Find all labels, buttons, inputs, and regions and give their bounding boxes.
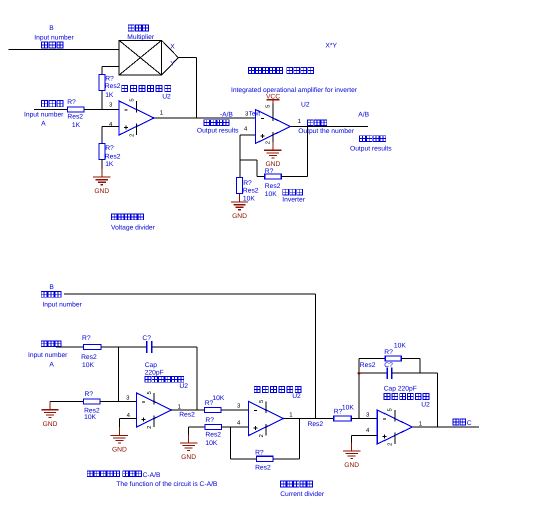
svg-text:U2: U2 <box>179 383 188 390</box>
wire cap row left <box>359 372 387 374</box>
svg-text:U2: U2 <box>162 93 171 100</box>
svg-text:R?: R? <box>205 417 214 424</box>
svg-text:2: 2 <box>387 443 394 446</box>
svg-text:220pF: 220pF <box>145 370 164 377</box>
wire op3 pin 4 to ground <box>119 419 136 428</box>
op-amp U2 (third) <box>137 393 172 427</box>
wire resistor to ground <box>101 159 103 168</box>
resistor R? Res2 1K (op1 pin4 to ground) <box>99 143 121 168</box>
ground GND (op5 pin 4) <box>343 443 360 469</box>
ground GND (op4 pin 4) <box>180 435 197 461</box>
resistor R? Res2 10K (op5 feedback) <box>360 342 407 369</box>
svg-text:The function of the circuit is: The function of the circuit is C-A/B <box>116 481 218 488</box>
svg-text:R?: R? <box>82 335 91 342</box>
svg-text:Integrated operational amplifi: Integrated operational amplifier for inv… <box>231 87 358 94</box>
svg-text:Res2: Res2 <box>67 114 83 121</box>
op-amp U2 (fifth) <box>377 410 412 444</box>
wire op2 pin 4 feedback net <box>240 135 265 177</box>
svg-text:2: 2 <box>146 426 153 429</box>
net label B (bottom) <box>41 284 82 309</box>
svg-text:R?: R? <box>265 168 274 175</box>
wire input A <box>34 109 67 111</box>
wire resistor to op4 pin 4 <box>222 426 249 428</box>
svg-text:A: A <box>41 120 46 127</box>
caption 电压除法器 Voltage divider <box>111 214 156 231</box>
wire feedback resistor row <box>359 358 385 360</box>
svg-text:Res2: Res2 <box>179 412 195 419</box>
svg-text:Res2: Res2 <box>265 183 281 190</box>
ground GND (below op1 resistor) <box>93 169 110 195</box>
net label 输出结果 Output results (right) <box>350 136 392 153</box>
svg-text:Inverter: Inverter <box>282 197 305 204</box>
svg-text:Res2: Res2 <box>308 421 324 428</box>
wire multiplier lower input <box>102 66 119 74</box>
wire op1 output to op2 pin 3 <box>154 117 255 119</box>
svg-text:Res2: Res2 <box>81 354 97 361</box>
svg-text:Output results: Output results <box>350 146 392 153</box>
svg-text:Input number: Input number <box>34 35 74 42</box>
caption 电流除法器 Current divider <box>280 481 325 498</box>
svg-text:Y: Y <box>170 61 175 68</box>
svg-text:2: 2 <box>264 141 271 144</box>
svg-text:A: A <box>49 361 54 368</box>
svg-text:R?: R? <box>255 450 264 457</box>
svg-text:10K: 10K <box>342 404 354 411</box>
resistor R? Res2 10K (op3 pin 3) <box>84 391 100 421</box>
wire cap to op5 output <box>392 373 438 427</box>
wire feedback resistor to cap row <box>401 359 420 374</box>
wire multiplier output down to output node <box>178 58 196 118</box>
svg-text:1K: 1K <box>72 122 81 129</box>
wire resistor A to capacitor <box>101 346 146 348</box>
svg-text:Res2: Res2 <box>105 153 121 160</box>
svg-text:GND: GND <box>344 462 359 469</box>
resistor R? Res2 10K (op3 to op4) <box>179 395 225 419</box>
op-amp U2 label 稳压集成运放 (third) <box>145 377 188 391</box>
net label -A/B output results <box>197 111 239 134</box>
net label B (input number, top left) <box>34 25 74 48</box>
pin 3 and net Text label U2 second <box>245 111 260 118</box>
wire resistor to op5 pin 3 <box>351 418 377 420</box>
svg-text:C?: C? <box>142 335 151 342</box>
ground GND (op3 pin 4) <box>111 427 128 453</box>
svg-text:B: B <box>49 25 54 32</box>
svg-text:2: 2 <box>128 134 135 137</box>
svg-text:5: 5 <box>129 98 135 101</box>
svg-text:R?: R? <box>67 99 76 106</box>
wire op4 output to resistor <box>284 418 334 420</box>
wire ground to resistor (op3 pin3) <box>50 401 84 403</box>
svg-text:Input number: Input number <box>24 112 64 119</box>
svg-text:10K: 10K <box>394 342 406 349</box>
wire capacitor to op3 output node <box>152 347 197 410</box>
svg-text:10K: 10K <box>212 395 224 402</box>
svg-text:GND: GND <box>43 421 58 428</box>
svg-text:10K: 10K <box>205 440 217 447</box>
svg-text:5: 5 <box>147 391 153 394</box>
wire B to op4 output node <box>64 294 316 419</box>
capacitor C? Cap 220pF (op3 feedback) <box>142 335 163 377</box>
power VCC on op2 <box>266 94 280 110</box>
svg-text:B: B <box>49 284 54 291</box>
svg-text:U2: U2 <box>421 401 430 408</box>
net label A (input number) <box>24 101 64 128</box>
svg-text:C-A/B: C-A/B <box>143 472 161 479</box>
svg-text:C: C <box>467 420 472 427</box>
resistor R? Res2 1K (top, to multiplier) <box>99 75 121 100</box>
svg-text:1K: 1K <box>105 161 114 168</box>
svg-text:Res2: Res2 <box>255 465 271 472</box>
caption 反相器 Inverter <box>282 189 305 203</box>
resistor R? Res2 10K (op4 pin 4) <box>205 417 221 447</box>
svg-text:Res2: Res2 <box>205 432 221 439</box>
svg-text:GND: GND <box>181 454 196 461</box>
op-amp U2 (second, inverter) <box>255 110 290 144</box>
svg-text:GND: GND <box>94 188 109 195</box>
svg-text:GND: GND <box>112 447 127 454</box>
svg-text:Output results: Output results <box>197 128 239 135</box>
svg-text:R?: R? <box>105 145 114 152</box>
svg-text:Res2: Res2 <box>105 83 121 90</box>
wire ground corner to resistor (op4 pin 4) <box>189 427 206 435</box>
junction dot <box>358 372 361 375</box>
svg-text:R?: R? <box>243 180 252 187</box>
svg-text:Res2: Res2 <box>243 188 259 195</box>
multiplier (乘法器) <box>119 25 178 75</box>
op-amp U2 label 稳压集成运放 (fifth) <box>384 394 430 409</box>
wire node down to op3 pin 3 <box>118 347 120 402</box>
svg-text:5: 5 <box>259 400 265 403</box>
wire op2 output <box>290 126 368 128</box>
ground GND (op2 power pin) <box>264 142 281 168</box>
wire resistor A to op-amp U2 pin 3 <box>84 109 119 111</box>
net label 输出数 Output the number <box>298 120 355 135</box>
svg-text:C?: C? <box>384 362 393 369</box>
op-amp U2 (first, voltage divider) <box>119 101 154 135</box>
svg-text:R?: R? <box>384 349 393 356</box>
svg-text:X*Y: X*Y <box>325 43 337 50</box>
wire resistor to node A line <box>101 91 103 110</box>
net label A (bottom input) <box>28 341 68 369</box>
resistor R? Res2 1K (series input A) <box>67 99 84 129</box>
capacitor C? Cap 220pF (op5 feedback) <box>384 362 417 393</box>
wire op-amp pin 4 to lower resistor <box>102 127 119 144</box>
svg-text:10K: 10K <box>84 414 96 421</box>
wire input A bottom <box>56 346 84 348</box>
wire op4 feedback down <box>231 427 257 459</box>
caption 反相器专用集成运放 <box>249 67 314 73</box>
svg-text:2: 2 <box>258 434 265 437</box>
svg-text:U2: U2 <box>292 393 301 400</box>
resistor R? Res2 10K (op2 to ground) <box>237 177 259 202</box>
svg-text:Current divider: Current divider <box>280 491 325 498</box>
svg-text:U2: U2 <box>301 102 310 109</box>
wire B input to multiplier <box>9 49 120 51</box>
wire feedback resistor to op4 output <box>273 419 300 459</box>
op-amp U2 label 稳压集成运放 U2 <box>122 86 171 101</box>
svg-text:Cap 220pF: Cap 220pF <box>384 386 417 393</box>
op-amp U2 (fourth) <box>249 402 284 436</box>
svg-text:Input number: Input number <box>28 352 68 359</box>
wire op5 feedback node up <box>358 359 360 419</box>
wire feedback resistor to op2 output <box>281 127 307 177</box>
svg-text:A/B: A/B <box>358 112 369 119</box>
ground GND (below 10K resistor) <box>231 194 248 220</box>
net label 输出C <box>453 419 472 427</box>
wire op5 pin 4 to ground <box>352 436 378 443</box>
resistor R? Res2 10K (inverter feedback) <box>265 168 282 198</box>
caption 该电路实现的功能C-A/B <box>87 471 161 479</box>
svg-text:Cap: Cap <box>145 362 158 369</box>
svg-text:5: 5 <box>265 105 271 108</box>
svg-text:Voltage divider: Voltage divider <box>111 224 156 231</box>
wire resistor to op3 pin 3 <box>100 401 136 403</box>
svg-text:Input number: Input number <box>42 302 82 309</box>
svg-text:Output the number: Output the number <box>298 128 355 135</box>
resistor R? Res2 (op4 feedback) <box>255 450 273 472</box>
svg-text:Res2: Res2 <box>360 362 376 369</box>
svg-text:Multiplier: Multiplier <box>127 34 155 41</box>
resistor R? 10K (op4 to op5) <box>334 404 355 421</box>
wire op3 output <box>172 409 205 411</box>
svg-text:X: X <box>170 43 175 50</box>
svg-text:10K: 10K <box>265 191 277 198</box>
svg-text:Text: Text <box>249 111 261 118</box>
svg-text:5: 5 <box>388 408 394 411</box>
resistor R? Res2 10K (series A bottom) <box>81 335 101 369</box>
op-amp U2 label 稳压集成运放 (fourth) <box>254 387 301 401</box>
svg-text:-A/B: -A/B <box>220 111 234 118</box>
wire op5 output 输出C <box>412 426 479 428</box>
svg-text:10K: 10K <box>82 362 94 369</box>
ground GND (bottom left) <box>41 402 58 428</box>
svg-text:GND: GND <box>232 213 247 220</box>
svg-text:R?: R? <box>85 391 94 398</box>
wire resistor to op4 pin 3 <box>221 409 249 411</box>
svg-text:R?: R? <box>105 76 114 83</box>
wire op2 pin 2 to ground <box>272 144 274 146</box>
svg-text:1K: 1K <box>105 92 114 99</box>
